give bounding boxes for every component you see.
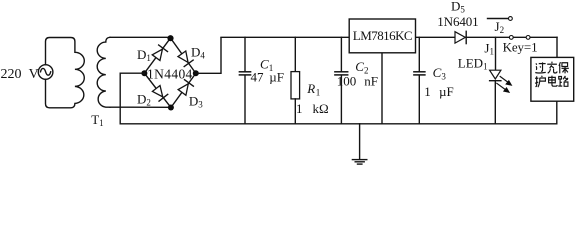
diode D3 <box>178 80 194 96</box>
LED light arrow 2 <box>497 83 507 90</box>
label 1N4404 <box>147 66 193 81</box>
bridge edge top-right <box>171 38 196 73</box>
diode D2 <box>152 85 168 101</box>
transformer T1 primary loop wire <box>46 38 85 108</box>
switch J1 contact circle right <box>526 36 530 40</box>
label LED1 <box>458 56 488 72</box>
svg-text:nF: nF <box>364 74 378 89</box>
diode D5 <box>455 31 466 43</box>
capacitor C2 <box>335 37 348 124</box>
transformer T1 secondary winding <box>97 37 110 107</box>
svg-text:220: 220 <box>1 67 22 82</box>
wire top rail <box>221 36 557 38</box>
LED light arrow 1 <box>500 77 509 84</box>
hanzi lu (路) <box>558 76 568 86</box>
svg-text:C: C <box>433 65 442 80</box>
label 220 V <box>1 67 39 82</box>
svg-text:1N6401: 1N6401 <box>437 14 478 29</box>
wire protection box bottom to bottom rail <box>556 101 558 124</box>
label 47 uF <box>251 69 285 84</box>
svg-text:100: 100 <box>337 74 357 89</box>
svg-text:1: 1 <box>316 87 321 97</box>
svg-text:R: R <box>306 81 315 96</box>
label 1N6401 <box>437 14 478 29</box>
label D1 <box>137 47 151 63</box>
wire top rail corner down to protection box <box>556 37 558 57</box>
svg-text:µF: µF <box>269 69 284 84</box>
svg-text:1: 1 <box>296 101 303 116</box>
label C3 <box>433 65 447 82</box>
node bridge bottom <box>168 105 174 111</box>
label C2 <box>355 59 368 76</box>
ground <box>352 124 366 164</box>
label D5 <box>451 0 465 14</box>
wire secondary bottom to bridge bottom node <box>110 106 171 108</box>
bridge edge bottom-right <box>171 73 196 107</box>
wire bridge left vertex to ground rail <box>120 73 144 124</box>
label 100 nF <box>337 74 378 89</box>
hanzi guo (过) <box>535 62 545 73</box>
AC source circle <box>38 65 53 80</box>
label 1 kOhm <box>296 101 329 116</box>
label D3 <box>189 94 203 110</box>
svg-text:LM7816KC: LM7816KC <box>353 28 413 43</box>
hanzi dian (电) <box>549 76 558 87</box>
label D2 <box>137 92 151 108</box>
node bridge right <box>193 70 199 76</box>
wire LED branch from top rail <box>495 37 497 70</box>
resistor R1 <box>291 37 300 124</box>
svg-text:V: V <box>29 67 39 82</box>
label J1 <box>484 40 494 56</box>
regulator U1 LM7816KC ground pin <box>381 53 383 124</box>
svg-text:3: 3 <box>441 71 446 81</box>
label T1 <box>91 112 103 128</box>
regulator U1 LM7816KC <box>349 19 415 53</box>
hanzi hu (护) <box>535 76 545 87</box>
block overcharge protection box <box>531 57 574 101</box>
svg-text:1: 1 <box>424 84 431 99</box>
node bridge top <box>167 35 173 41</box>
capacitor C3 <box>414 37 425 124</box>
label C1 <box>260 57 273 74</box>
AC source sine wave <box>41 68 51 75</box>
bridge edge left-bottom <box>144 73 171 107</box>
switch J1 contact circle left <box>509 36 513 40</box>
wire bottom rail <box>120 123 557 125</box>
svg-text:C: C <box>355 59 364 74</box>
svg-text:1N4404: 1N4404 <box>147 66 193 81</box>
wire secondary top to bridge top node <box>110 36 171 38</box>
switch J2 lever <box>488 18 509 20</box>
LED LED1 <box>490 70 513 124</box>
capacitor C1 <box>239 37 250 124</box>
hanzi chong (充) <box>547 62 557 74</box>
svg-text:kΩ: kΩ <box>313 101 329 116</box>
bridge edge left-top <box>144 38 170 73</box>
svg-text:47: 47 <box>251 69 265 84</box>
label D4 <box>191 45 205 61</box>
wire bridge right vertex to top rail <box>196 38 221 73</box>
diode D1 <box>152 45 168 61</box>
hanzi bao (保) <box>559 62 569 73</box>
diode D4 <box>177 51 193 67</box>
label J2 <box>495 19 505 35</box>
svg-text:µF: µF <box>439 84 454 99</box>
label 1 uF <box>424 84 454 99</box>
switch J2 contact circle <box>509 17 513 21</box>
label R1 <box>306 81 320 98</box>
label Key=1 <box>503 40 538 55</box>
node bridge left <box>141 70 147 76</box>
svg-text:Key=1: Key=1 <box>503 40 538 55</box>
